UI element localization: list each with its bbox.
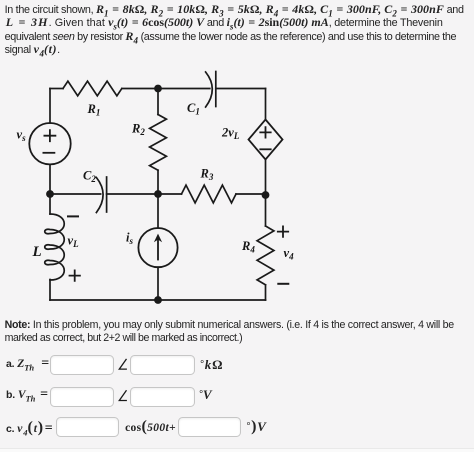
node dot center [154, 190, 162, 198]
vs plus [44, 130, 55, 141]
row b box 1 [50, 387, 114, 407]
node dot bottom middle [154, 296, 162, 304]
is arrow head [46, 85, 269, 304]
row c label [6, 421, 53, 436]
capacitor C2 curved plate [96, 178, 103, 213]
capacitor C1 curved plate [206, 72, 213, 107]
svg-text:R3: R3 [200, 167, 214, 183]
svg-text:C2: C2 [83, 169, 96, 185]
svg-text:vL: vL [68, 234, 80, 250]
wire right node to R4 [265, 195, 267, 226]
resistor R3 [182, 185, 237, 203]
is arrow shaft [157, 239, 159, 260]
dependent source 2vL diamond [249, 120, 283, 160]
row b box 2 [130, 387, 195, 407]
svg-text:L: L [32, 244, 42, 260]
row a box 1 [50, 355, 114, 375]
node dot right middle [262, 191, 270, 199]
row c box 2 [178, 417, 241, 437]
inductor L [45, 214, 65, 280]
wire R3 to right node [236, 193, 266, 195]
voltage source vs circle [29, 123, 70, 164]
row c box 1 [56, 417, 119, 437]
wire is to bottom node [157, 267, 159, 300]
wire R1 to C1 [122, 88, 210, 90]
svg-text:R1: R1 [87, 102, 101, 118]
paragraph line 4 [5, 43, 60, 57]
svg-text:v4: v4 [284, 246, 295, 262]
row c unit [247, 419, 267, 435]
paragraph line 3 [5, 30, 457, 44]
wire C1 to top-right corner [216, 88, 266, 90]
row b label [6, 388, 48, 402]
resistor R2 [150, 115, 167, 171]
wire top-left to R1 [50, 88, 63, 90]
wire R4 to bottom rail [265, 285, 267, 300]
svg-text:C1: C1 [187, 101, 200, 117]
row a label [6, 357, 49, 371]
capacitor C2 straight plate [106, 177, 108, 212]
resistor R4 [257, 226, 274, 285]
angle symbol row b [119, 390, 127, 400]
node dot left middle [46, 190, 54, 198]
wire R2 to middle node [157, 170, 159, 194]
left rail: top corner down to vs [49, 89, 51, 124]
middle column: top dot to R2 [157, 89, 159, 115]
svg-text:R2: R2 [131, 122, 145, 138]
row b unit [199, 388, 211, 404]
vs minus [43, 152, 54, 154]
resistor R1 [63, 81, 122, 96]
note line 1 [5, 319, 454, 344]
diamond minus [260, 148, 270, 150]
svg-text:R4: R4 [241, 239, 255, 255]
paragraph line 2 [6, 16, 443, 30]
svg-text:is: is [126, 231, 133, 247]
wire vs to left mid node [49, 164, 51, 194]
wire middle node to R3 [158, 193, 182, 195]
wire left node to L [49, 194, 51, 214]
R4 minus mark [278, 283, 288, 285]
wire C2 to middle node [107, 193, 158, 195]
row c cos text [125, 420, 176, 435]
angle symbol row a [119, 359, 127, 401]
mid rail: left node to C2 [50, 193, 101, 195]
row a box 2 [130, 355, 195, 375]
svg-text:vs: vs [17, 128, 27, 144]
bottom strip [0, 448, 474, 452]
paragraph line 1 [5, 3, 464, 17]
R4 plus mark [278, 226, 288, 236]
wire diamond to right node [265, 160, 267, 196]
capacitor C1 straight plate [215, 72, 217, 107]
row a unit [200, 357, 223, 373]
node dot top middle [154, 85, 162, 93]
wire middle node to is [157, 194, 159, 228]
diamond plus [260, 127, 270, 137]
inductor minus mark [68, 215, 78, 217]
bottom rail [50, 299, 266, 301]
wire L to bottom rail [49, 280, 51, 301]
inductor plus mark [70, 270, 80, 280]
current source is circle [138, 228, 177, 267]
svg-text:2vL: 2vL [221, 126, 240, 142]
labels [17, 101, 295, 262]
right rail: top corner to diamond [265, 89, 267, 120]
